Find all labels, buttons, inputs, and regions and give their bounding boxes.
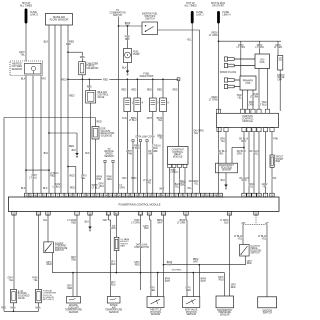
wire BLK jumper to ground xyxy=(49,132,77,134)
svg-text:RED: RED xyxy=(47,264,52,266)
svg-text:ORG: ORG xyxy=(241,180,246,182)
wire M/T-A/T dashed branch from PCM xyxy=(255,215,257,224)
svg-text:LT BLU: LT BLU xyxy=(132,148,140,150)
wire CCRM to PCM xyxy=(169,168,171,194)
svg-text:ORG: ORG xyxy=(237,154,242,156)
svg-text:PNK: PNK xyxy=(273,139,278,141)
wire WHT/LT BLU idle air control to PCM xyxy=(90,103,92,193)
spark plug 3 xyxy=(224,78,227,82)
ground PCM BLK xyxy=(88,227,91,230)
svg-text:YEL: YEL xyxy=(194,184,199,186)
heated oxygen sensor xyxy=(10,61,43,76)
svg-text:RED: RED xyxy=(111,284,116,286)
svg-text:LT GRN: LT GRN xyxy=(274,47,283,49)
svg-text:LT GRN: LT GRN xyxy=(177,223,186,225)
svg-text:MCA: MCA xyxy=(35,306,41,309)
fuel injector 4 xyxy=(134,98,141,112)
svg-text:BLK: BLK xyxy=(85,153,90,155)
svg-text:RED: RED xyxy=(131,89,136,91)
wire GRY/RED CPP switch to clutch line xyxy=(245,256,247,265)
wire ORG/YEL ICM to crankshaft position sensor xyxy=(225,132,227,164)
primary coil xyxy=(240,76,256,90)
svg-text:YEL: YEL xyxy=(33,280,38,282)
wire BRN/WHT PCM to TPS and clutch line xyxy=(163,215,165,297)
svg-text:BLK: BLK xyxy=(122,67,127,69)
svg-text:RED: RED xyxy=(80,57,85,59)
svg-text:SOLENOID: SOLENOID xyxy=(101,136,113,138)
svg-text:YEL: YEL xyxy=(158,120,163,122)
svg-text:RED: RED xyxy=(67,288,72,290)
svg-text:SENSOR: SENSOR xyxy=(222,170,232,172)
svg-text:SWITCH: SWITCH xyxy=(55,250,64,252)
wire LT BLU/YEL to ignition switch xyxy=(266,224,268,296)
wire GRY PCM to intake air sensor xyxy=(108,215,110,220)
wire PNK ICM through spout bar to PCM xyxy=(271,132,273,155)
svg-text:SENSOR: SENSOR xyxy=(12,68,23,71)
wire RED bus drop to idle air control valve xyxy=(88,78,90,80)
ignition coil pack xyxy=(255,54,270,69)
wire GRY/YEL fuse S to heated oxygen sensor xyxy=(25,24,27,62)
mass air flow sensor xyxy=(46,14,73,26)
svg-text:PNK: PNK xyxy=(272,178,277,180)
wire GRY/RED signal bus to TPS xyxy=(157,272,159,274)
svg-text:ORG: ORG xyxy=(152,148,157,150)
wire CCRM to PCM xyxy=(173,168,175,194)
svg-text:SENSOR: SENSOR xyxy=(109,312,119,314)
svg-text:COIL: COIL xyxy=(245,83,251,85)
svg-text:LT BLU: LT BLU xyxy=(259,104,267,106)
svg-text:RED: RED xyxy=(69,95,74,98)
wire BLK crankshaft sensor to ground xyxy=(225,173,227,185)
torque converter clutch solenoid xyxy=(36,289,42,302)
wire YEL PCM to power steering pressure switch xyxy=(47,215,49,242)
svg-text:TAN: TAN xyxy=(122,117,127,120)
svg-text:RED: RED xyxy=(70,187,75,189)
svg-text:BLK: BLK xyxy=(44,152,49,155)
ignition control module xyxy=(216,109,220,113)
wire RED MAF signal to PCM xyxy=(67,25,69,193)
node RED VREF splice xyxy=(67,166,69,168)
svg-text:ALL TIMES: ALL TIMES xyxy=(20,5,33,8)
svg-text:RED: RED xyxy=(147,89,152,91)
octane adjust shorting bar xyxy=(114,237,119,250)
svg-text:BLK: BLK xyxy=(72,150,77,152)
svg-text:VALVE: VALVE xyxy=(97,96,105,99)
svg-text:SOLENOID: SOLENOID xyxy=(86,68,98,70)
svg-text:RED: RED xyxy=(135,264,140,266)
radio noise capacitor xyxy=(278,56,283,71)
svg-text:YEL: YEL xyxy=(221,141,226,143)
svg-text:RED: RED xyxy=(173,89,178,91)
engine coolant temperature sensor xyxy=(67,297,81,304)
wire TAN/YEL primary coil to ICM xyxy=(242,90,244,109)
svg-text:ORG: ORG xyxy=(218,154,223,156)
svg-text:RED: RED xyxy=(219,279,224,281)
svg-text:ORG: ORG xyxy=(146,183,151,185)
wire ICM to PCM xyxy=(248,132,250,194)
svg-text:YEL: YEL xyxy=(20,54,25,57)
svg-text:RED: RED xyxy=(121,89,126,91)
svg-text:PNK: PNK xyxy=(97,179,102,181)
svg-text:YEL: YEL xyxy=(237,98,242,100)
svg-text:BLK: BLK xyxy=(100,186,105,188)
svg-text:(A/T ONLY): (A/T ONLY) xyxy=(43,298,54,301)
wire BLK fuel pump to ground xyxy=(127,63,129,71)
wire RED/LT GRN to ign coil xyxy=(259,41,261,54)
wire MAF to PCM xyxy=(54,25,56,193)
wire RED/LT GRN to radio noise capacitor xyxy=(277,41,279,55)
svg-text:OR START: OR START xyxy=(212,5,225,8)
EGR valve position sensor xyxy=(183,297,200,308)
throttle position sensor xyxy=(147,297,164,308)
svg-text:PUMP: PUMP xyxy=(133,54,140,56)
svg-text:RED: RED xyxy=(231,287,236,289)
svg-text:RED: RED xyxy=(150,290,155,292)
svg-text:YEL: YEL xyxy=(254,154,259,156)
svg-text:RED: RED xyxy=(186,290,191,292)
svg-text:MCA: MCA xyxy=(10,306,16,309)
svg-text:RED: RED xyxy=(247,263,252,265)
wire primary coil to ICM xyxy=(252,90,254,109)
svg-text:RED: RED xyxy=(70,176,75,178)
wire BLK oxygen sensor to PCM xyxy=(25,76,27,194)
wire GRY/BLK vehicle speed sensor to PCM xyxy=(104,160,106,162)
fuel pump xyxy=(124,49,132,63)
svg-text:LT BLU: LT BLU xyxy=(53,187,61,189)
svg-text:A/T: A/T xyxy=(265,222,269,225)
fuel injector 9 xyxy=(160,98,167,112)
wire BRN/WHT clutch return line xyxy=(164,264,246,266)
svg-text:BLK: BLK xyxy=(144,228,149,230)
svg-text:SPARK PLUGS: SPARK PLUGS xyxy=(220,71,237,74)
fuel injector 1 xyxy=(124,98,131,112)
svg-text:BLK: BLK xyxy=(21,187,26,190)
wire CCRM to PCM xyxy=(184,168,186,194)
wire RED fuel injector supply bus xyxy=(68,78,102,80)
intake air temperature sensor xyxy=(107,297,120,304)
svg-text:RED: RED xyxy=(50,175,55,177)
svg-text:YEL: YEL xyxy=(9,280,14,282)
idle air control valve xyxy=(86,91,96,103)
wire BLK MAF to PCM xyxy=(48,25,50,193)
svg-text:WHT: WHT xyxy=(147,118,153,120)
svg-text:SWITCH: SWITCH xyxy=(145,18,155,20)
canister purge solenoid xyxy=(79,62,86,75)
svg-text:YEL: YEL xyxy=(194,132,199,135)
svg-text:SWITCH: SWITCH xyxy=(251,253,260,255)
svg-text:CAP: CAP xyxy=(277,79,282,82)
EGR vacuum regulator solenoid xyxy=(92,127,99,140)
svg-text:BLK: BLK xyxy=(125,39,130,41)
wire PNK/ORG vehicle speed sensor to PCM xyxy=(112,160,114,162)
wire injector 3 to PCM xyxy=(152,112,154,194)
wire injector 9 to PCM xyxy=(162,112,164,194)
spout short bar connector xyxy=(270,155,274,167)
svg-text:ORG: ORG xyxy=(241,141,246,143)
wire TAN/LT BLU ign coil to ICM xyxy=(267,69,269,110)
wire LT BLU/YEL to clutch pedal position switch xyxy=(242,224,244,244)
wire TAN/LT GRN ign coil to ICM xyxy=(258,69,260,110)
ground crankshaft sensor xyxy=(224,185,227,188)
wire RED/LT GRN to primary coil xyxy=(240,41,242,76)
svg-text:ORG: ORG xyxy=(40,77,46,80)
svg-text:BAR: BAR xyxy=(276,160,281,163)
node junction on BLK wire xyxy=(48,132,50,134)
PCM top pin xyxy=(252,193,256,197)
power steering pressure switch xyxy=(44,242,54,253)
svg-text:BAR: BAR xyxy=(120,245,125,248)
svg-text:YEL: YEL xyxy=(262,187,267,189)
wire GRY/LT BLU oxygen sensor to PCM xyxy=(32,76,34,194)
wire LT GRN/RED PCM to coolant sensor xyxy=(76,215,78,297)
svg-text:WHT: WHT xyxy=(159,188,165,190)
wire RED power rail horizontal xyxy=(4,117,96,119)
spark plug 4 xyxy=(224,84,227,88)
svg-text:LINK J: LINK J xyxy=(196,14,204,17)
wire GRY/RED PSP switch to signal return bus xyxy=(51,253,53,273)
svg-text:INJECTORS: INJECTORS xyxy=(140,75,154,78)
wire YEL fuse J to PCM xyxy=(191,24,193,194)
injector 9 supply drop xyxy=(162,78,164,80)
svg-text:GRY/RED: GRY/RED xyxy=(172,270,182,272)
wire BRN/PNK EGR vacuum regulator to PCM xyxy=(95,139,97,193)
wire GRY/RED signal bus to coolant sensor xyxy=(72,272,74,274)
svg-text:WHT: WHT xyxy=(193,262,199,264)
crankshaft position sensor xyxy=(216,163,238,173)
svg-text:RED: RED xyxy=(111,264,116,266)
svg-text:SWITCH: SWITCH xyxy=(113,15,123,17)
ground G101 xyxy=(75,153,78,156)
injector 4 supply drop xyxy=(136,78,138,80)
svg-text:WHT: WHT xyxy=(165,281,171,283)
svg-text:YEL: YEL xyxy=(43,220,48,222)
wire PNK/YEL PCM to TCC solenoid xyxy=(38,215,40,289)
svg-text:RED: RED xyxy=(71,223,76,225)
svg-text:YEL: YEL xyxy=(81,178,86,180)
svg-text:LT GRN: LT GRN xyxy=(209,34,218,37)
svg-text:ORG: ORG xyxy=(107,179,112,181)
svg-text:BLK: BLK xyxy=(224,223,229,225)
svg-text:CONNECTOR: CONNECTOR xyxy=(134,247,149,249)
wire CCRM to PCM xyxy=(179,168,181,194)
wire RED MAF to PCM xyxy=(60,25,62,193)
PCM top pin xyxy=(270,193,274,197)
svg-text:GRN: GRN xyxy=(120,188,125,190)
svg-text:RED: RED xyxy=(1,307,6,309)
wire PNK/LT GRN data link branch xyxy=(140,215,142,273)
branch BRN/PNK to inertia fuel shutoff switch xyxy=(118,25,120,27)
svg-text:LT BLU: LT BLU xyxy=(129,120,137,122)
wire DK GRN PCM through octane shorting bar xyxy=(115,215,117,237)
svg-text:YEL: YEL xyxy=(262,238,267,240)
svg-text:LT GRN: LT GRN xyxy=(131,223,140,225)
PCM top pin xyxy=(247,193,251,197)
injector 3 supply drop xyxy=(152,78,154,80)
wire octane bar to signal return bus xyxy=(115,251,117,273)
svg-text:RED: RED xyxy=(103,79,108,81)
wire DK GRN data link connector to PCM xyxy=(146,140,148,142)
svg-text:MODULE: MODULE xyxy=(173,157,183,159)
wire GRY/YEL PCM to AIR bypass solenoid xyxy=(13,215,15,289)
wire TAN/ORG primary coil to ICM xyxy=(247,90,249,109)
powertrain control module xyxy=(8,197,279,211)
wire ORG oxygen sensor to PCM xyxy=(40,76,42,194)
svg-text:M/T: M/T xyxy=(242,223,247,225)
svg-text:SENSOR: SENSOR xyxy=(151,314,161,316)
svg-text:MODULE: MODULE xyxy=(242,120,253,123)
svg-text:FLOW SENSOR: FLOW SENSOR xyxy=(50,18,69,22)
wire GRY/RED signal return bus xyxy=(52,272,224,274)
PCM top connector pin row xyxy=(25,193,29,197)
AIR bypass solenoid valve xyxy=(11,289,17,302)
wire RED drop to EGR vacuum regulator xyxy=(95,118,97,127)
wire GRY/RED signal bus to EGR position sensor xyxy=(192,272,194,274)
svg-text:LT BLU: LT BLU xyxy=(30,177,38,179)
wire RED injector bus to CCRM xyxy=(177,78,180,81)
wire BLK splice line xyxy=(26,169,49,171)
wire RED/LT BLU data link connector to PCM xyxy=(139,140,141,142)
svg-text:YEL: YEL xyxy=(187,188,192,190)
svg-text:BLK: BLK xyxy=(85,222,90,224)
svg-text:YEL: YEL xyxy=(158,138,163,140)
wire PNK/BLK branch to fuel pump xyxy=(127,25,129,27)
wire DK BLU/YEL ICM to PCM xyxy=(258,132,260,194)
svg-text:YEL: YEL xyxy=(187,38,192,41)
svg-text:BLK: BLK xyxy=(43,188,48,190)
wire RED inertia switch to PCM xyxy=(158,29,200,31)
wire RED VREF branch to PCM xyxy=(75,167,77,194)
svg-text:YEL: YEL xyxy=(175,186,180,188)
wire canister purge to PCM through bus junction xyxy=(81,75,83,194)
spark plug 1 xyxy=(224,57,227,61)
svg-text:WHT: WHT xyxy=(167,264,173,266)
svg-text:RED: RED xyxy=(157,89,162,91)
svg-text:GRY: GRY xyxy=(103,220,108,222)
spark plug 2 xyxy=(224,63,227,67)
wire DK BLU/ORG ICM branch to crankshaft sensor xyxy=(243,132,245,194)
svg-text:LINK S: LINK S xyxy=(30,14,38,17)
svg-text:TAN: TAN xyxy=(122,177,127,180)
wire RED/LT GRN fuse N to PCM xyxy=(218,24,220,194)
svg-text:DATA LINK CONN: DATA LINK CONN xyxy=(135,135,154,138)
wire RED return rail bottom xyxy=(4,310,39,312)
wire GRY/BLK PCM to throttle position sensor xyxy=(149,215,151,220)
svg-text:RED: RED xyxy=(97,122,102,124)
svg-text:SENSOR: SENSOR xyxy=(186,314,196,316)
wire GRY/RED signal bus end to barometric sensor xyxy=(223,273,225,296)
wire BRN/LT GRN PCM to EGR position sensor xyxy=(185,215,187,220)
svg-text:RED: RED xyxy=(69,145,74,148)
wire injector 1 to PCM xyxy=(126,112,128,194)
wire ICM to PCM xyxy=(265,132,267,194)
svg-text:WHT: WHT xyxy=(201,281,207,283)
branch to canister purge solenoid xyxy=(67,51,69,53)
svg-text:SENSOR: SENSOR xyxy=(69,312,79,314)
svg-text:YEL: YEL xyxy=(238,238,243,240)
ground fuel pump xyxy=(126,71,129,74)
svg-text:RED: RED xyxy=(87,87,92,89)
wire BLK PCM case ground xyxy=(89,215,91,227)
wire injector 4 to PCM xyxy=(136,112,138,194)
svg-text:LT BLU: LT BLU xyxy=(171,172,179,174)
svg-text:PNK: PNK xyxy=(127,154,132,156)
fuel injector 3 xyxy=(149,98,156,112)
svg-text:SWITCH: SWITCH xyxy=(263,313,272,315)
PCM bottom connector pins xyxy=(12,211,16,215)
svg-text:BLK: BLK xyxy=(221,180,226,182)
wire RED rail left vertical xyxy=(3,118,5,312)
svg-text:RED: RED xyxy=(71,260,76,262)
PCM top pin xyxy=(257,193,261,197)
svg-text:BLK: BLK xyxy=(44,41,49,44)
barometric pressure sensor xyxy=(216,296,234,308)
svg-text:YEL: YEL xyxy=(249,187,254,189)
svg-text:LT GRN: LT GRN xyxy=(255,47,264,49)
svg-text:LT GRN: LT GRN xyxy=(250,97,259,99)
svg-text:ALL TIMES: ALL TIMES xyxy=(184,5,197,8)
wire WHT/PNK data link connector to PCM xyxy=(132,140,134,142)
svg-text:SENSOR: SENSOR xyxy=(220,314,230,316)
svg-text:LT GRN: LT GRN xyxy=(237,47,246,49)
svg-text:LINK N: LINK N xyxy=(223,14,231,17)
injector 1 supply drop xyxy=(126,78,128,80)
svg-text:COIL: COIL xyxy=(259,62,265,64)
svg-text:BLK: BLK xyxy=(21,77,26,80)
svg-text:RED: RED xyxy=(61,79,66,81)
svg-text:POWERTRAIN CONTROL MODULE: POWERTRAIN CONTROL MODULE xyxy=(119,202,161,206)
wire BRN/WHT clutch line to EGR position sensor xyxy=(198,264,200,266)
svg-text:VALVE: VALVE xyxy=(18,297,25,300)
svg-text:GRN: GRN xyxy=(110,228,115,230)
svg-text:ORG: ORG xyxy=(148,154,153,156)
PCM top pin xyxy=(263,193,267,197)
svg-text:YEL: YEL xyxy=(180,184,185,186)
constant control relay module xyxy=(168,147,189,165)
svg-text:LT GRN: LT GRN xyxy=(209,99,218,102)
wire ICM to PCM xyxy=(253,132,255,194)
svg-text:RED: RED xyxy=(66,44,71,46)
clutch pedal position switch xyxy=(240,244,250,256)
wire LT GRN/BLK PCM to barometric sensor xyxy=(229,215,231,296)
svg-text:BRN: BRN xyxy=(131,178,136,180)
ignition switch xyxy=(258,297,277,308)
svg-text:WHT: WHT xyxy=(157,223,163,225)
svg-text:SENSOR: SENSOR xyxy=(104,156,114,158)
node ignition feed bus xyxy=(218,40,220,42)
PCM top pin xyxy=(242,193,246,197)
